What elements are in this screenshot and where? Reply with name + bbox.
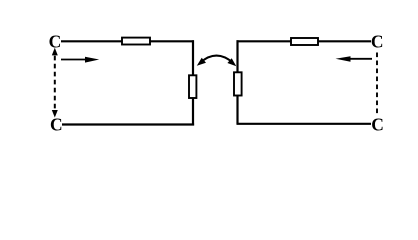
wire (right loop, bottom) [237,123,372,125]
wire (left loop, top) [61,40,194,42]
resistor (right loop, series) [291,38,318,45]
current arrow I1 (left loop) [61,57,99,63]
coupling arrow (double-headed arc) [197,56,237,67]
svg-text:C: C [50,114,63,134]
port line (right, dashed) [376,53,378,117]
wire (left loop, right vertical) [192,40,194,125]
svg-text:C: C [371,114,384,134]
wire (right loop, top) [237,40,372,42]
resistor (right loop, shunt) [234,72,242,95]
resistor (left loop, series) [122,38,150,45]
resistor (left loop, shunt) [189,75,196,98]
port arrow (left, dashed double-headed) [52,48,58,118]
svg-text:C: C [371,32,384,52]
wire (left loop, bottom) [62,123,194,125]
wire (right loop, left vertical) [236,40,238,124]
current arrow I2 (right loop) [336,56,373,62]
